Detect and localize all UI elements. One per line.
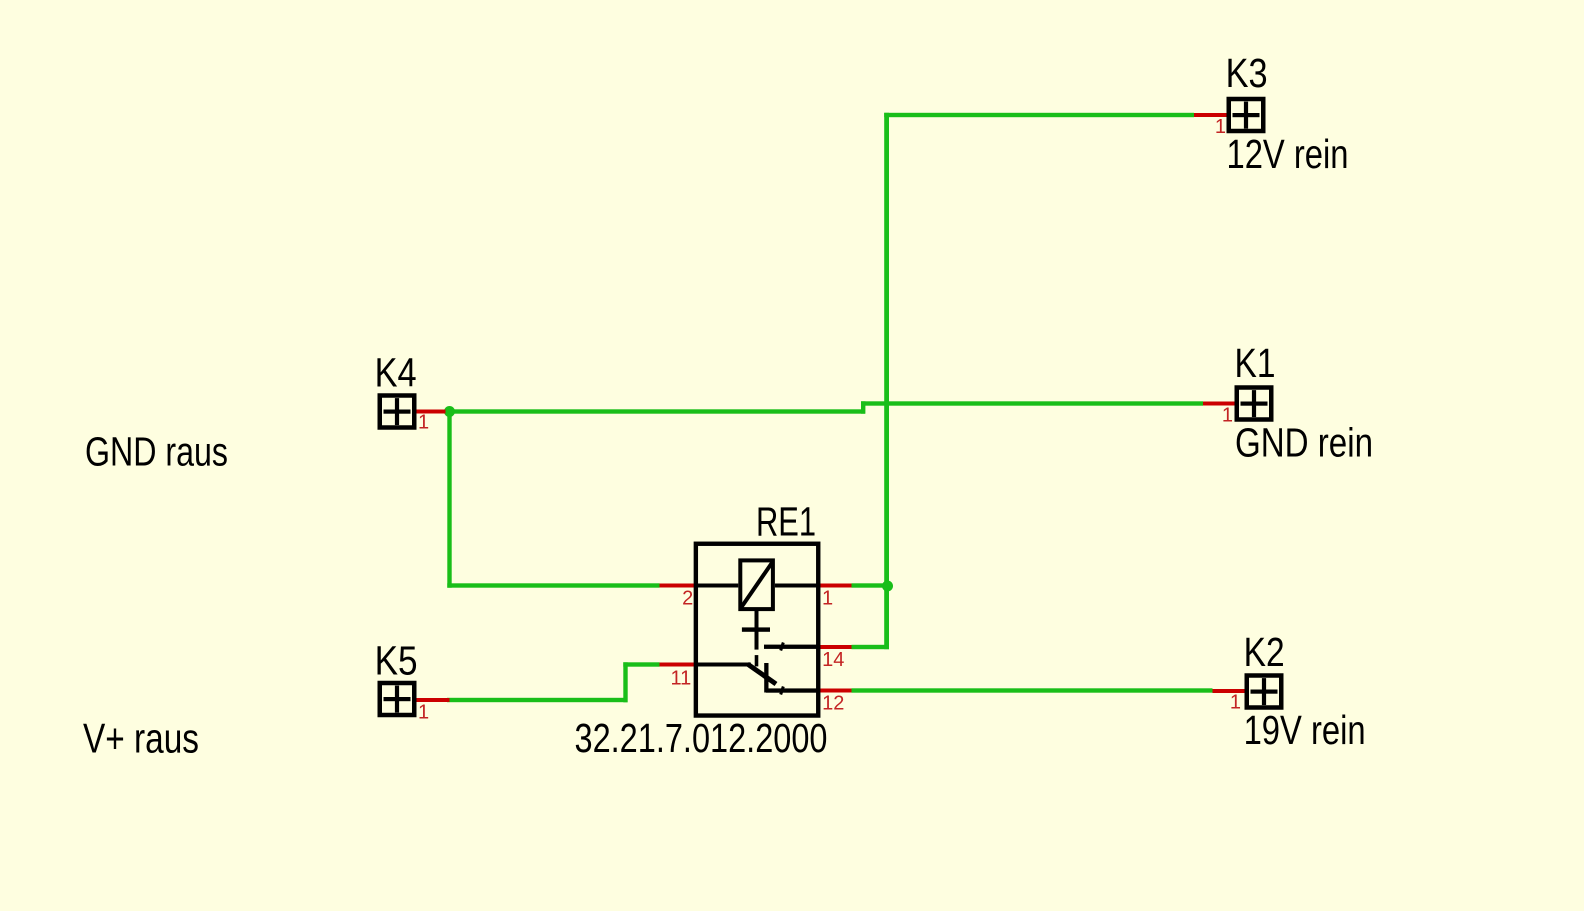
svg-text:1: 1 [418,412,429,434]
svg-text:1: 1 [1230,692,1241,714]
svg-text:1: 1 [822,587,833,609]
svg-text:32.21.7.012.2000: 32.21.7.012.2000 [575,715,828,761]
svg-text:1: 1 [418,702,429,724]
svg-text:GND rein: GND rein [1235,419,1373,465]
svg-text:K3: K3 [1226,50,1268,96]
svg-text:K5: K5 [375,638,418,684]
svg-text:1: 1 [1215,116,1226,138]
svg-text:K4: K4 [375,350,417,396]
svg-text:12: 12 [822,693,844,715]
svg-text:V+ raus: V+ raus [83,715,199,762]
svg-text:GND raus: GND raus [85,428,228,474]
svg-text:12V rein: 12V rein [1227,131,1349,177]
svg-text:K2: K2 [1244,629,1285,675]
svg-text:19V rein: 19V rein [1244,707,1366,753]
svg-text:K1: K1 [1235,340,1276,386]
svg-text:2: 2 [682,587,693,609]
svg-text:1: 1 [1222,404,1233,426]
svg-text:14: 14 [822,649,844,671]
svg-text:RE1: RE1 [756,499,816,545]
svg-text:11: 11 [671,668,692,690]
